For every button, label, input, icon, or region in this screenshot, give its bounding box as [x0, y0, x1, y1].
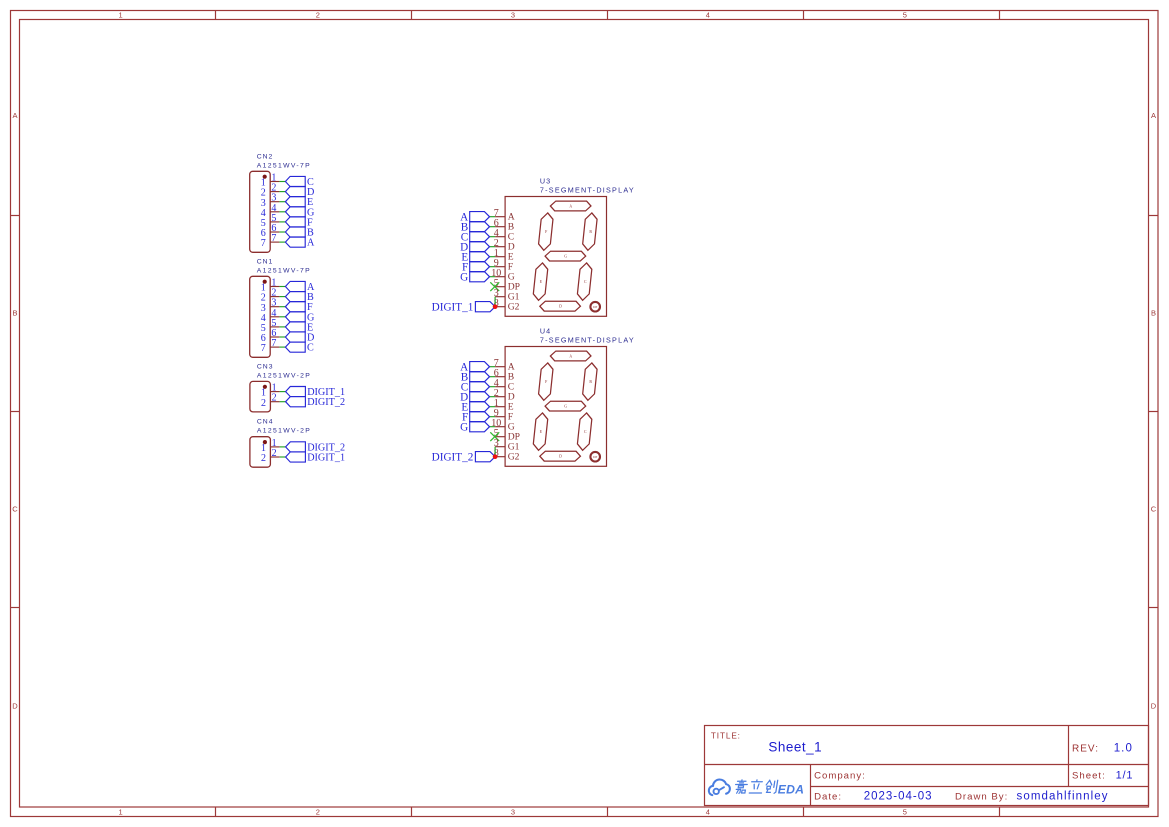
net label D	[460, 391, 489, 403]
net label C	[285, 176, 314, 188]
CN2 body	[250, 171, 271, 252]
svg-text:7: 7	[261, 343, 266, 354]
CN2 pin 1 dot	[263, 175, 267, 179]
junction dot on U4 G2	[493, 454, 498, 459]
CN1 refdes and value labels	[257, 258, 311, 274]
CN2 refdes and value labels	[257, 153, 311, 169]
CN1 pin 6	[261, 328, 280, 344]
CN1 pin 1 dot	[263, 280, 267, 284]
svg-text:REV:: REV:	[1072, 744, 1099, 755]
net label F	[285, 302, 313, 314]
svg-text:A: A	[307, 238, 315, 249]
svg-text:A1251WV-7P: A1251WV-7P	[257, 267, 311, 274]
wire	[279, 231, 285, 233]
CN1 pin 4	[261, 308, 280, 324]
svg-text:C: C	[12, 505, 18, 514]
net label B	[461, 371, 490, 383]
wire	[279, 241, 285, 243]
svg-text:A1251WV-7P: A1251WV-7P	[257, 162, 311, 169]
net label A	[285, 237, 315, 249]
U3 pin 8 (G2)	[494, 298, 520, 312]
wire	[490, 226, 496, 228]
svg-text:F: F	[545, 230, 547, 234]
svg-text:G: G	[460, 271, 468, 283]
wire	[490, 416, 496, 418]
svg-text:Sheet_1: Sheet_1	[768, 740, 822, 755]
svg-text:3: 3	[511, 11, 515, 20]
svg-text:Company:: Company:	[814, 770, 866, 781]
svg-text:DIGIT_1: DIGIT_1	[307, 453, 345, 464]
net label D	[460, 241, 489, 253]
svg-text:2: 2	[261, 453, 266, 464]
U4 pin 10 (G)	[491, 418, 514, 432]
net label F	[285, 217, 313, 229]
net label E	[461, 251, 489, 263]
svg-text:7: 7	[271, 233, 276, 244]
svg-text:2: 2	[272, 448, 277, 459]
wire	[279, 306, 285, 308]
CN2 pin 2	[261, 183, 280, 199]
svg-text:3: 3	[511, 808, 515, 817]
svg-text:1: 1	[119, 808, 123, 817]
U4 pin 8 (G2)	[494, 448, 520, 462]
CN3 body	[250, 381, 271, 412]
svg-text:C: C	[307, 343, 314, 354]
svg-text:C: C	[1151, 505, 1157, 514]
net label E	[285, 322, 313, 334]
wire	[490, 276, 496, 278]
CN3 pin 2	[261, 393, 280, 409]
net label F	[462, 261, 490, 273]
wire	[490, 236, 496, 238]
wire	[279, 286, 285, 288]
wire	[279, 191, 285, 193]
net label E	[461, 401, 489, 413]
svg-text:2: 2	[261, 398, 266, 409]
wire	[279, 316, 285, 318]
svg-text:7: 7	[261, 238, 266, 249]
wire	[279, 336, 285, 338]
net label B	[461, 221, 490, 233]
U3 pin 1 (E)	[494, 248, 514, 262]
svg-text:CN3: CN3	[257, 363, 274, 370]
net label A	[285, 281, 315, 293]
svg-text:D: D	[559, 455, 562, 459]
svg-text:U3: U3	[540, 177, 551, 186]
svg-text:2: 2	[272, 393, 277, 404]
svg-text:CN1: CN1	[257, 258, 274, 265]
svg-text:G: G	[460, 421, 468, 433]
svg-text:G: G	[564, 405, 567, 409]
svg-text:2: 2	[316, 11, 320, 20]
net label G	[460, 421, 489, 433]
CN1 pin 2	[261, 288, 280, 304]
wire	[279, 211, 285, 213]
wire	[490, 246, 496, 248]
svg-text:7-SEGMENT-DISPLAY: 7-SEGMENT-DISPLAY	[540, 336, 635, 345]
JLCEDA logo text (jia li chuang glyph strokes)	[734, 780, 778, 793]
net label DIGIT_1	[286, 387, 346, 399]
CN1 pin 1	[261, 278, 280, 294]
svg-text:7-SEGMENT-DISPLAY: 7-SEGMENT-DISPLAY	[540, 186, 635, 195]
svg-text:A: A	[569, 205, 572, 209]
svg-text:4: 4	[706, 808, 710, 817]
U3 refdes and value labels	[540, 177, 635, 195]
net label DIGIT_2	[286, 397, 346, 409]
svg-text:C: C	[584, 280, 587, 284]
CN1 pin 7	[261, 338, 280, 354]
U4 pin 6 (B)	[494, 368, 514, 382]
svg-text:5: 5	[903, 808, 907, 817]
svg-text:CN2: CN2	[257, 153, 274, 160]
wire G1-G2	[494, 297, 496, 307]
wire	[279, 346, 285, 348]
CN1 pin 5	[261, 318, 280, 334]
U4 pin 5 (DP)	[494, 428, 520, 442]
wire	[490, 366, 496, 368]
svg-text:2: 2	[316, 808, 320, 817]
CN3 refdes and value labels	[257, 363, 311, 379]
net label DIGIT_2	[286, 442, 346, 454]
U4 7-segment digit	[532, 351, 599, 461]
U3 body	[505, 197, 606, 317]
wire	[279, 296, 285, 298]
CN2 pin 6	[261, 223, 280, 239]
net label A	[460, 211, 489, 223]
net label F	[462, 411, 490, 423]
svg-text:Date:: Date:	[814, 791, 842, 802]
CN2 pin 4	[261, 203, 280, 219]
U4 pin 9 (F)	[494, 408, 513, 422]
wire	[490, 406, 496, 408]
wire	[490, 426, 496, 428]
CN3 pin 1	[261, 383, 280, 399]
svg-text:A1251WV-2P: A1251WV-2P	[257, 372, 311, 379]
wire	[280, 391, 286, 393]
svg-text:A: A	[569, 355, 572, 359]
svg-text:2023-04-03: 2023-04-03	[864, 790, 933, 802]
svg-text:Sheet:: Sheet:	[1072, 770, 1106, 781]
CN4 pin 1	[261, 438, 280, 454]
U3 pin 3 (G1)	[494, 288, 520, 302]
U3 pin 2 (D)	[494, 238, 515, 252]
CN4 refdes and value labels	[257, 419, 311, 435]
svg-text:1.0: 1.0	[1114, 743, 1133, 755]
svg-text:U4: U4	[540, 327, 551, 336]
net label G	[285, 312, 315, 324]
svg-text:1/1: 1/1	[1116, 770, 1134, 782]
svg-text:5: 5	[903, 11, 907, 20]
JLCEDA logo cloud icon	[709, 780, 730, 796]
wire	[279, 181, 285, 183]
wire	[490, 396, 496, 398]
svg-text:C: C	[584, 430, 587, 434]
net label G	[460, 271, 489, 283]
net label B	[285, 292, 314, 304]
net label DIGIT_2	[432, 452, 495, 464]
net label DIGIT_1	[286, 452, 346, 464]
U4 pin 3 (G1)	[494, 438, 520, 452]
U4 pin 1 (E)	[494, 398, 514, 412]
U4 pin 2 (D)	[494, 388, 515, 402]
svg-text:4: 4	[706, 11, 710, 20]
wire	[279, 201, 285, 203]
JLCEDA logo EDA text	[778, 782, 804, 796]
net label A	[460, 361, 489, 373]
svg-text:F: F	[545, 380, 547, 384]
svg-text:B: B	[1151, 309, 1156, 318]
CN4 pin 2	[261, 448, 280, 464]
svg-text:B: B	[12, 309, 17, 318]
svg-text:G2: G2	[508, 451, 520, 462]
svg-text:G: G	[564, 255, 567, 259]
wire	[490, 376, 496, 378]
net label C	[461, 381, 490, 393]
title block texts	[711, 732, 1133, 803]
svg-text:DP: DP	[593, 455, 597, 459]
CN2 pin 5	[261, 213, 280, 229]
svg-text:Drawn By:: Drawn By:	[955, 791, 1008, 802]
svg-text:A: A	[12, 111, 17, 120]
svg-text:EDA: EDA	[778, 782, 804, 796]
U3 segment letters	[540, 205, 593, 309]
U3 pin 6 (B)	[494, 218, 514, 232]
CN1 body	[250, 276, 271, 357]
net label C	[461, 231, 490, 243]
junction dot on U3 G2	[493, 304, 498, 309]
svg-text:somdahlfinnley: somdahlfinnley	[1017, 790, 1109, 802]
wire	[490, 256, 496, 258]
svg-text:1: 1	[119, 11, 123, 20]
net label D	[285, 187, 314, 199]
CN2 pin 7	[261, 233, 280, 249]
wire G1-G2	[494, 447, 496, 457]
no-connect X on U3 DP	[490, 282, 499, 291]
svg-text:CN4: CN4	[257, 419, 274, 426]
svg-text:D: D	[1151, 701, 1157, 710]
svg-text:DP: DP	[593, 305, 597, 309]
svg-text:DIGIT_2: DIGIT_2	[307, 397, 345, 408]
wire	[280, 446, 286, 448]
U3 7-segment digit	[532, 201, 599, 311]
U4 segment letters	[540, 355, 593, 459]
wire	[490, 386, 496, 388]
CN3 pin 1 dot	[263, 385, 267, 389]
svg-text:7: 7	[271, 338, 276, 349]
net label C	[285, 342, 314, 354]
wire	[279, 326, 285, 328]
U4 refdes and value labels	[540, 327, 635, 345]
net label E	[285, 197, 313, 209]
U3 pin 4 (C)	[494, 228, 514, 242]
CN2 pin 3	[261, 193, 280, 209]
wire	[279, 221, 285, 223]
CN2 pin 1	[261, 173, 280, 189]
svg-text:D: D	[559, 305, 562, 309]
wire	[490, 266, 496, 268]
wire	[280, 456, 286, 458]
U3 DP indicator	[590, 302, 600, 312]
svg-text:D: D	[12, 701, 18, 710]
U4 pin 4 (C)	[494, 378, 514, 392]
U3 pin 10 (G)	[491, 268, 514, 282]
net label DIGIT_1	[432, 302, 495, 314]
svg-text:A: A	[1151, 111, 1156, 120]
no-connect X on U4 DP	[490, 432, 499, 441]
wire	[490, 216, 496, 218]
U4 pin 7 (A)	[494, 358, 515, 372]
net label B	[285, 227, 314, 239]
U3 pin 7 (A)	[494, 208, 515, 222]
svg-text:DIGIT_1: DIGIT_1	[432, 302, 474, 314]
U3 pin 5 (DP)	[494, 278, 520, 292]
CN4 pin 1 dot	[263, 440, 267, 444]
U4 DP indicator	[590, 452, 600, 462]
net label D	[285, 332, 314, 344]
U3 pin 9 (F)	[494, 258, 513, 272]
U4 body	[505, 347, 606, 467]
svg-text:A1251WV-2P: A1251WV-2P	[257, 428, 311, 435]
svg-text:TITLE:: TITLE:	[711, 732, 741, 741]
title block	[705, 726, 1149, 806]
svg-text:G2: G2	[508, 301, 520, 312]
svg-text:DIGIT_2: DIGIT_2	[432, 452, 474, 464]
CN4 body	[250, 437, 271, 468]
wire	[280, 401, 286, 403]
net label G	[285, 207, 315, 219]
CN1 pin 3	[261, 298, 280, 314]
